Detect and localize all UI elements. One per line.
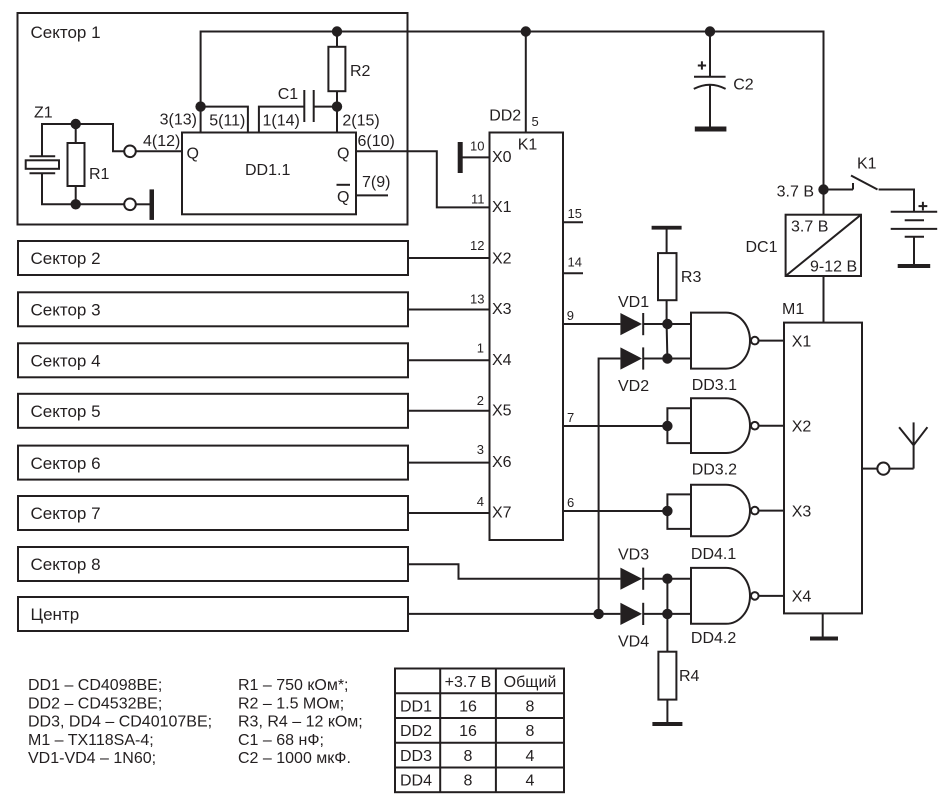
svg-text:C2: C2	[733, 76, 754, 93]
svg-text:DD4.2: DD4.2	[691, 630, 736, 647]
svg-text:DD4.1: DD4.1	[691, 546, 736, 563]
svg-text:DD1.1: DD1.1	[245, 162, 290, 179]
svg-text:8: 8	[526, 699, 535, 716]
svg-text:Z1: Z1	[34, 104, 53, 121]
svg-text:K1: K1	[518, 137, 538, 154]
svg-text:X1: X1	[492, 199, 512, 216]
svg-text:15: 15	[568, 206, 582, 221]
svg-text:16: 16	[459, 699, 477, 716]
svg-text:5(11): 5(11)	[209, 113, 245, 130]
svg-text:R1 – 750 кОм*;: R1 – 750 кОм*;	[238, 677, 349, 694]
svg-text:5: 5	[532, 114, 539, 129]
svg-text:9: 9	[567, 308, 574, 323]
svg-text:11: 11	[471, 191, 485, 206]
svg-text:Общий: Общий	[504, 674, 557, 691]
svg-text:4: 4	[526, 748, 535, 765]
svg-text:Q: Q	[187, 146, 199, 163]
svg-text:7(9): 7(9)	[362, 174, 390, 191]
svg-text:X1: X1	[792, 333, 812, 350]
svg-text:DD3.1: DD3.1	[692, 377, 737, 394]
svg-text:7: 7	[567, 410, 574, 425]
svg-text:K1: K1	[857, 156, 877, 173]
svg-text:Сектор 2: Сектор 2	[31, 249, 101, 268]
svg-text:C1: C1	[278, 86, 299, 103]
svg-text:1: 1	[477, 341, 484, 356]
svg-text:14: 14	[568, 254, 582, 269]
svg-text:X4: X4	[792, 589, 812, 606]
svg-text:2: 2	[477, 393, 484, 408]
svg-text:X2: X2	[492, 250, 512, 267]
svg-text:3.7 В: 3.7 В	[791, 219, 828, 236]
svg-text:Сектор 3: Сектор 3	[31, 301, 101, 320]
svg-text:3.7 В: 3.7 В	[777, 184, 814, 201]
svg-text:Сектор 1: Сектор 1	[31, 23, 101, 42]
svg-text:10: 10	[470, 139, 484, 154]
svg-text:16: 16	[459, 723, 477, 740]
svg-text:1(14): 1(14)	[263, 113, 300, 130]
svg-text:Сектор 8: Сектор 8	[31, 555, 101, 574]
svg-text:4: 4	[526, 773, 535, 790]
svg-text:Q: Q	[337, 146, 349, 163]
svg-text:Сектор 4: Сектор 4	[31, 352, 101, 371]
svg-text:6(10): 6(10)	[358, 133, 395, 150]
svg-text:9-12 В: 9-12 В	[810, 259, 857, 276]
svg-text:X3: X3	[492, 301, 512, 318]
svg-text:X5: X5	[492, 402, 512, 419]
svg-text:Сектор 5: Сектор 5	[31, 402, 101, 421]
svg-text:X4: X4	[492, 352, 512, 369]
svg-text:DD3, DD4 – CD40107BE;: DD3, DD4 – CD40107BE;	[28, 714, 212, 731]
svg-text:DD4: DD4	[400, 773, 432, 790]
svg-text:6: 6	[567, 495, 574, 510]
svg-text:4(12): 4(12)	[143, 133, 180, 150]
svg-text:R2 – 1.5 МОм;: R2 – 1.5 МОм;	[238, 695, 344, 712]
svg-text:X3: X3	[792, 503, 812, 520]
svg-text:X0: X0	[492, 149, 512, 166]
svg-text:R1: R1	[89, 166, 110, 183]
svg-text:DD2: DD2	[400, 723, 432, 740]
svg-text:M1: M1	[782, 301, 804, 318]
svg-text:8: 8	[526, 723, 535, 740]
svg-text:X2: X2	[792, 419, 812, 436]
svg-text:2(15): 2(15)	[342, 113, 379, 130]
svg-text:R3, R4 – 12 кОм;: R3, R4 – 12 кОм;	[238, 714, 363, 731]
svg-text:Сектор 6: Сектор 6	[31, 454, 101, 473]
svg-text:C1 – 68 нФ;: C1 – 68 нФ;	[238, 732, 324, 749]
svg-text:X6: X6	[492, 454, 512, 471]
svg-text:DC1: DC1	[746, 239, 778, 256]
svg-text:DD2 – CD4532BE;: DD2 – CD4532BE;	[28, 695, 162, 712]
svg-text:R4: R4	[679, 668, 700, 685]
svg-text:+3.7 В: +3.7 В	[445, 674, 492, 691]
svg-text:4: 4	[477, 494, 484, 509]
svg-text:DD3: DD3	[400, 748, 432, 765]
svg-text:12: 12	[470, 238, 484, 253]
svg-text:3(13): 3(13)	[160, 112, 197, 129]
svg-text:13: 13	[470, 291, 484, 306]
svg-text:R2: R2	[350, 63, 371, 80]
svg-text:DD1 – CD4098BE;: DD1 – CD4098BE;	[28, 677, 162, 694]
svg-text:DD1: DD1	[400, 699, 432, 716]
svg-text:3: 3	[477, 442, 484, 457]
svg-text:VD1: VD1	[618, 294, 649, 311]
svg-text:8: 8	[464, 748, 473, 765]
svg-text:VD3: VD3	[618, 547, 649, 564]
svg-text:DD2: DD2	[489, 108, 521, 125]
svg-text:X7: X7	[492, 505, 512, 522]
svg-text:Сектор 7: Сектор 7	[31, 504, 101, 523]
svg-text:VD4: VD4	[618, 633, 649, 650]
svg-text:VD2: VD2	[618, 378, 649, 395]
svg-text:Центр: Центр	[31, 605, 80, 624]
svg-text:C2 – 1000 мкФ.: C2 – 1000 мкФ.	[238, 750, 351, 767]
svg-text:R3: R3	[681, 269, 702, 286]
svg-text:M1 – TX118SA-4;: M1 – TX118SA-4;	[28, 732, 154, 749]
svg-text:VD1-VD4 – 1N60;: VD1-VD4 – 1N60;	[28, 750, 156, 767]
svg-text:Q: Q	[337, 189, 349, 206]
svg-text:DD3.2: DD3.2	[692, 461, 737, 478]
svg-text:8: 8	[464, 773, 473, 790]
